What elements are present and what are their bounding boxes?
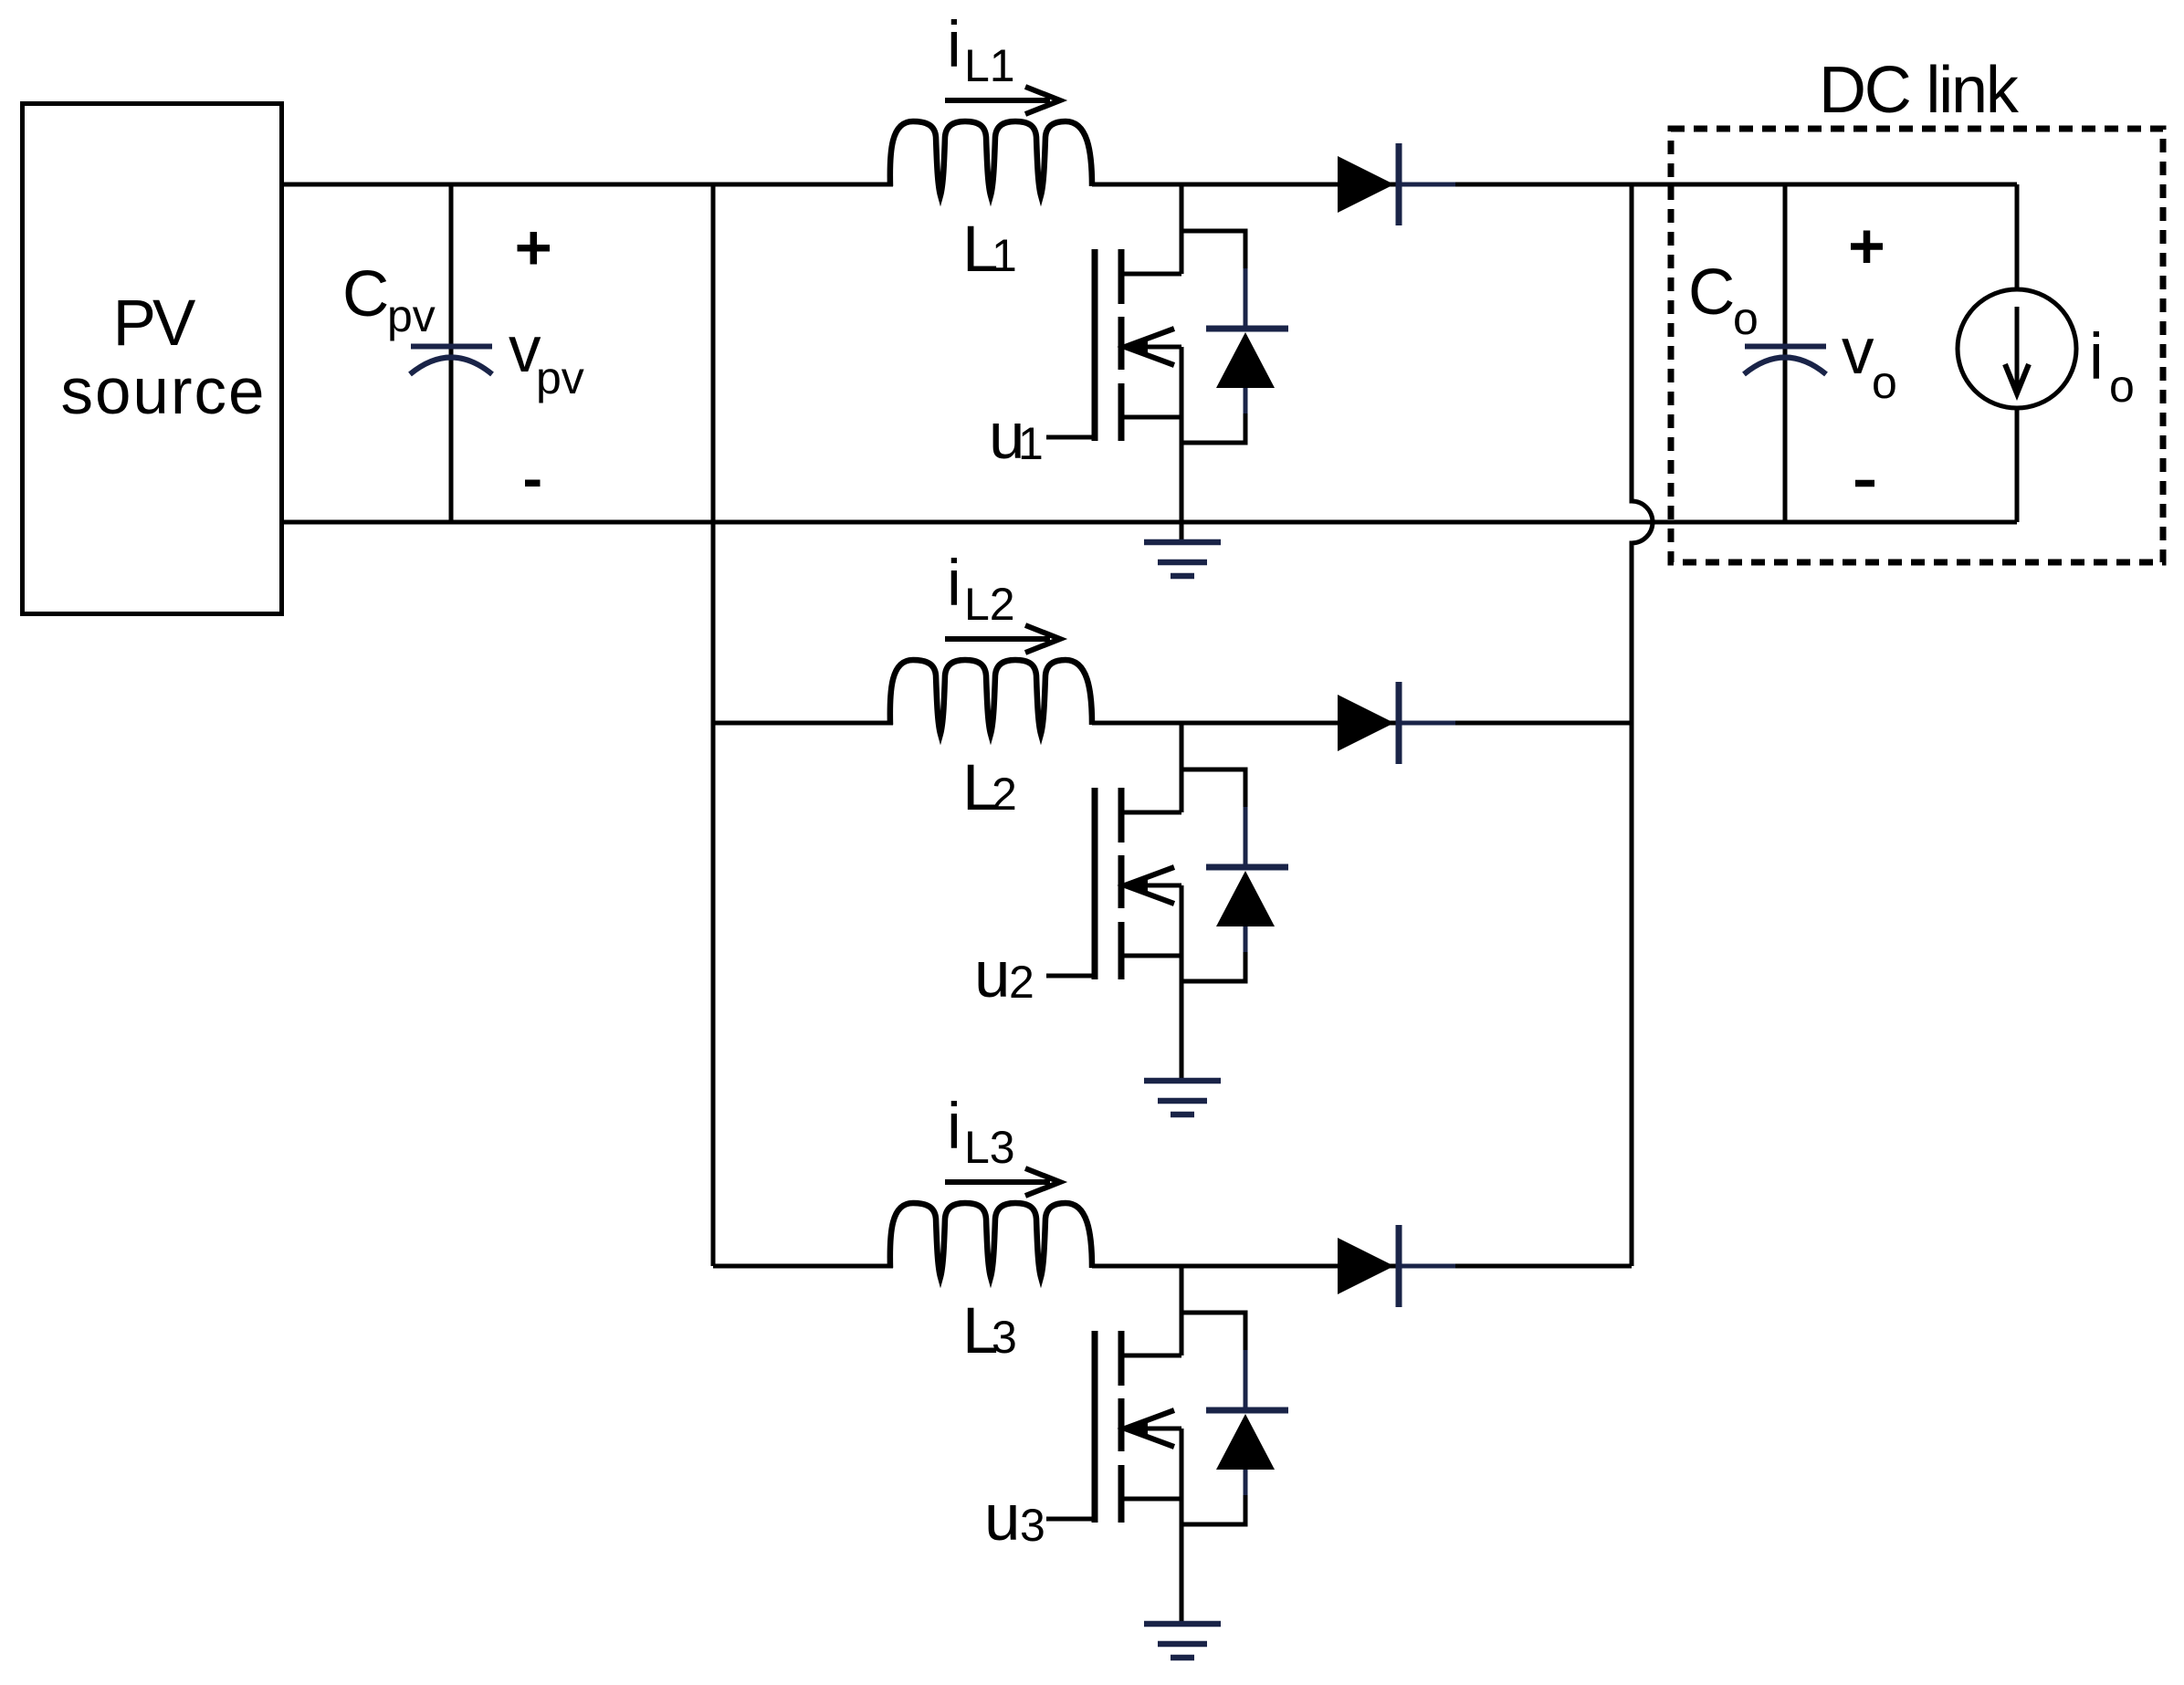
svg-text:i: i	[947, 9, 961, 81]
label + (o)	[1851, 231, 1883, 264]
svg-text:1: 1	[1018, 418, 1044, 469]
diode D1	[1338, 156, 1394, 213]
left branch bus	[711, 183, 716, 1266]
MOSFET u3 drain lead	[1121, 1354, 1181, 1358]
svg-text:o: o	[1733, 293, 1759, 344]
svg-text:PV: PV	[113, 288, 196, 360]
MOSFET u2 gate bar	[1092, 788, 1098, 979]
svg-text:C: C	[342, 258, 389, 330]
svg-text:C: C	[1688, 256, 1735, 329]
label - (pv)	[525, 479, 541, 487]
capacitor Cpv	[410, 347, 492, 375]
phase 2 rail left	[713, 721, 893, 726]
svg-text:L1: L1	[964, 40, 1015, 91]
body diode bottom connect	[1181, 1495, 1245, 1524]
MOSFET u1 gate bar	[1092, 249, 1098, 441]
phase 2 rail right	[1092, 721, 1632, 726]
diode D2	[1338, 695, 1394, 751]
svg-text:o: o	[2109, 361, 2135, 412]
diode D3	[1338, 1238, 1394, 1294]
MOSFET u1 channel dashes	[1118, 249, 1125, 441]
svg-text:2: 2	[992, 769, 1017, 820]
MOSFET u3 gate bar	[1092, 1331, 1098, 1523]
inductor L1	[890, 121, 1092, 195]
source vertical down to ground	[1180, 885, 1184, 1081]
MOSFET u3 gate lead	[1046, 1517, 1095, 1522]
capacitor Cpv wire	[449, 184, 454, 522]
source vertical down to ground	[1180, 347, 1184, 542]
label - (o)	[1855, 480, 1874, 487]
MOSFET u2 channel dashes	[1118, 788, 1125, 979]
svg-text:v: v	[1842, 316, 1874, 388]
MOSFET u1 drain lead	[1121, 272, 1181, 277]
body diode bottom connect	[1181, 952, 1245, 981]
source vertical down to ground	[1180, 1429, 1184, 1624]
MOSFET u1 body arrow	[1141, 345, 1181, 350]
MOSFET u1 gate lead	[1046, 435, 1095, 440]
MOSFET u1 source lead	[1121, 415, 1181, 420]
svg-text:L3: L3	[964, 1122, 1015, 1173]
drain vertical	[1180, 184, 1184, 274]
current source io arrow	[2015, 307, 2020, 392]
ground (phase 3)	[1144, 1624, 1221, 1658]
svg-text:pv: pv	[536, 352, 584, 403]
MOSFET u3 source lead	[1121, 1497, 1181, 1502]
PV source box	[23, 104, 282, 614]
phase 3 rail right	[1092, 1264, 1632, 1269]
body diode D (navy)	[1244, 268, 1248, 329]
top rail (right of L1)	[1092, 183, 2017, 187]
top rail (left of L1)	[282, 183, 893, 187]
svg-text:2: 2	[1009, 957, 1034, 1008]
svg-text:u: u	[974, 939, 1011, 1011]
phase 3 rail left	[713, 1264, 893, 1269]
MOSFET u2 gate lead	[1046, 974, 1095, 979]
svg-text:o: o	[1872, 357, 1897, 408]
svg-text:u: u	[984, 1482, 1021, 1554]
drain vertical	[1180, 1266, 1184, 1355]
svg-text:1: 1	[992, 230, 1017, 281]
capacitor Co	[1744, 347, 1826, 375]
inductor L3	[890, 1203, 1092, 1277]
body diode D (navy)	[1244, 1350, 1248, 1410]
svg-text:3: 3	[1020, 1500, 1045, 1551]
capacitor Co wire	[1783, 184, 1788, 522]
io top lead	[2015, 184, 2020, 291]
inductor L2	[890, 660, 1092, 734]
MOSFET u2 body arrow	[1141, 884, 1181, 888]
svg-text:source: source	[60, 356, 266, 428]
svg-text:i: i	[947, 548, 961, 620]
ground (phase 2)	[1144, 1081, 1221, 1115]
body diode top connect	[1181, 1313, 1245, 1352]
io bottom lead	[2015, 406, 2020, 522]
body diode top connect	[1181, 231, 1245, 270]
MOSFET u2 drain lead	[1121, 811, 1181, 815]
DC link dashed box	[1671, 129, 2163, 562]
label + (pv)	[518, 232, 551, 265]
svg-text:pv: pv	[387, 290, 436, 341]
body diode top connect	[1181, 769, 1245, 809]
current arrow iL1	[945, 98, 1050, 103]
svg-text:3: 3	[992, 1312, 1017, 1363]
current arrow iL3	[945, 1179, 1050, 1185]
MOSFET u3 body arrow	[1141, 1427, 1181, 1431]
bottom rail	[282, 520, 2017, 525]
body diode D (navy)	[1244, 807, 1248, 867]
svg-text:DC link: DC link	[1819, 54, 2020, 127]
body diode bottom connect	[1181, 413, 1245, 443]
drain vertical	[1180, 723, 1184, 812]
right output bus with hop over bottom rail	[1632, 184, 1653, 1266]
MOSFET u3 channel dashes	[1118, 1331, 1125, 1523]
svg-text:i: i	[947, 1091, 961, 1163]
current source io circle	[1958, 289, 2076, 408]
current arrow iL2	[945, 636, 1050, 642]
svg-text:i: i	[2089, 321, 2104, 393]
MOSFET u2 source lead	[1121, 954, 1181, 958]
svg-text:L2: L2	[964, 579, 1015, 630]
ground (phase 1)	[1144, 542, 1221, 576]
